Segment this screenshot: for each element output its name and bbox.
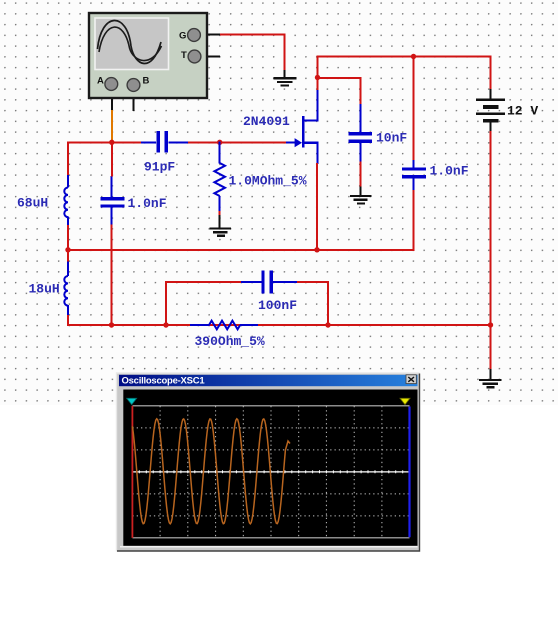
wire: scope T terminal stub: [201, 56, 220, 58]
wire: top rail drain to battery: [317, 56, 492, 90]
svg-text:390Ohm_5%: 390Ohm_5%: [195, 334, 265, 349]
svg-text:12 V: 12 V: [507, 104, 538, 119]
wire: 100nF branch: [165, 281, 329, 326]
wire: 1.0M to ground red stub: [219, 211, 221, 216]
inductor L2 18uH: [29, 262, 69, 316]
node: bottom rail x=111.5: [109, 322, 114, 327]
node: mid rail left: [65, 247, 70, 252]
svg-text:G: G: [179, 31, 186, 42]
wire: mid rail: [67, 249, 415, 251]
oscilloscope icon XSC1: [89, 13, 207, 98]
capacitor C 100nF: [241, 271, 297, 314]
capacitor C 91pF: [141, 131, 188, 175]
scope right edge marker (blue): [408, 407, 410, 538]
svg-text:1.0nF: 1.0nF: [128, 196, 167, 211]
scope display area: [120, 390, 418, 547]
wire: left rail down to 68uH: [67, 141, 69, 176]
wire: 10nF to ground red: [360, 162, 362, 188]
svg-text:A: A: [97, 76, 104, 87]
waveform trace channel A: [132, 419, 290, 524]
scope left edge marker (red): [131, 406, 133, 538]
wire: scope channel A drop (orange): [111, 91, 113, 142]
svg-text:68uH: 68uH: [17, 196, 48, 211]
battery V1 12V: [476, 89, 538, 132]
svg-text:1.0nF: 1.0nF: [430, 164, 469, 179]
scope grid: [132, 406, 409, 538]
resistor R 1.0MOhm_5%: [214, 141, 306, 211]
svg-text:91pF: 91pF: [144, 160, 175, 175]
resistor R 390Ohm_5%: [190, 321, 265, 349]
oscilloscope window XSC1: [117, 373, 420, 552]
wire: left 1.0nF top red: [111, 142, 113, 176]
svg-text:B: B: [143, 76, 150, 87]
capacitor C 10nF: [349, 104, 408, 162]
node: bottom rail x=166: [163, 322, 168, 327]
scope terminal A: [97, 76, 118, 91]
svg-text:10nF: 10nF: [376, 131, 407, 146]
svg-text:100nF: 100nF: [258, 298, 297, 313]
node: output junction top rail: [411, 54, 416, 59]
ground (scope G): [274, 70, 297, 86]
wire: gate rail: [68, 141, 287, 143]
scope cursor T2 (yellow triangle): [400, 398, 410, 404]
ground (bottom right): [479, 369, 502, 387]
wire: drain pin red part: [317, 78, 319, 91]
wire: left rail to 18uH: [67, 250, 69, 262]
ground (10nF): [350, 187, 372, 204]
svg-text:18uH: 18uH: [29, 282, 60, 297]
capacitor C 1.0nF (output right): [402, 159, 469, 191]
svg-text:Oscilloscope-XSC1: Oscilloscope-XSC1: [122, 376, 206, 387]
node: gate junction: [217, 140, 222, 145]
scope terminal G: [179, 29, 200, 42]
svg-text:2N4091: 2N4091: [243, 114, 290, 129]
node: source junction: [314, 247, 319, 252]
wire: 18uH down to bottom rail: [67, 315, 492, 326]
wire: 68uH to mid rail: [67, 225, 69, 251]
capacitor C 1.0nF (left): [100, 176, 166, 227]
scope terminal T: [181, 50, 201, 63]
wire: left 1.0nF bottom red: [111, 225, 113, 327]
transistor Q1 2N4091 JFET: [243, 90, 319, 164]
ground (1.0M resistor): [210, 215, 232, 236]
wire: scope G terminal to ground: [200, 34, 286, 70]
node: A junction: [109, 140, 114, 145]
svg-text:T: T: [181, 50, 187, 61]
scope terminal B: [127, 76, 149, 92]
wire: source pin to mid rail: [316, 163, 318, 251]
node: bottom rail x=328: [325, 322, 330, 327]
wire: to bottom right ground: [490, 325, 492, 369]
scope window close button: [406, 375, 416, 384]
wire: right cap bottom to mid rail: [413, 190, 415, 251]
wire: 10nF tap: [317, 77, 361, 105]
wire: scope channel B stub: [132, 92, 134, 111]
wire: right cap feed red: [413, 57, 415, 161]
node: drain junction: [315, 75, 320, 80]
node: bottom right junction: [488, 322, 493, 327]
scope plot border: [132, 406, 409, 538]
wire: battery negative down right side: [490, 131, 492, 326]
svg-text:1.0MOhm_5%: 1.0MOhm_5%: [229, 174, 307, 189]
scope cursor T1 (cyan triangle): [127, 398, 137, 404]
inductor L1 68uH: [17, 175, 68, 226]
